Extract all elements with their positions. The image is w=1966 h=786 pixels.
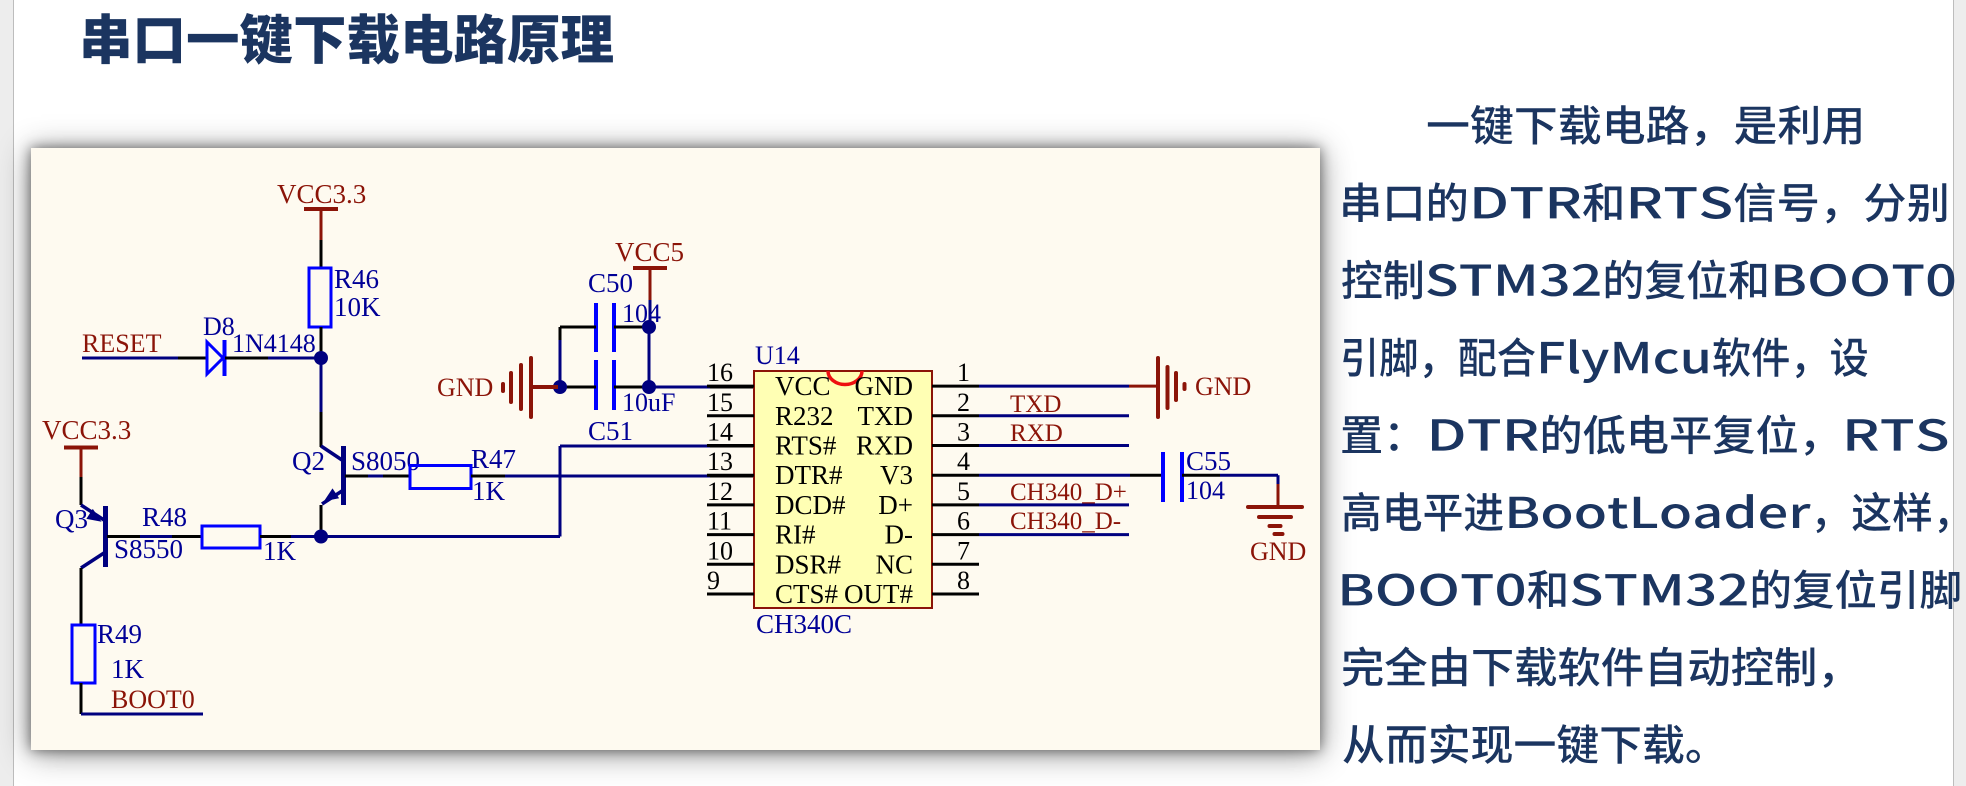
pin number 5	[957, 477, 970, 506]
transistor Q3 (S8550 PNP)	[81, 505, 106, 625]
pin name RI#	[775, 520, 816, 550]
node C51 right junction	[642, 380, 656, 394]
pin name CTS#	[775, 579, 839, 609]
ground GND (C55)	[1248, 507, 1306, 566]
pin 3 stub	[932, 444, 979, 447]
wire R46 to RESET node	[320, 327, 323, 358]
net label RESET	[82, 329, 162, 358]
pin 10 stub	[707, 563, 754, 566]
pin 7 stub	[932, 563, 979, 566]
net label TXD	[1010, 391, 1061, 418]
resistor R48	[202, 526, 260, 548]
pin number 7	[957, 536, 970, 565]
wire pin 5 CH340_D+	[979, 503, 1129, 506]
left gutter	[0, 0, 14, 786]
ground GND (C50/C51)	[437, 358, 558, 417]
IC U14 chip body (CH340C)	[754, 371, 932, 608]
label C50	[588, 268, 633, 298]
power VCC3.3 (Q3 emitter)	[42, 415, 131, 505]
pin 14 stub	[707, 444, 754, 447]
pin name RXD	[856, 431, 913, 461]
resistor R46	[309, 268, 331, 327]
net label CH340_D-	[1010, 508, 1121, 535]
wire C50 left	[560, 326, 596, 329]
net label CH340_D+	[1010, 479, 1127, 506]
wire R48 to node B	[260, 535, 321, 538]
wire VCC5 node down	[648, 327, 651, 387]
pin number 4	[957, 447, 970, 476]
label CH340C	[756, 609, 852, 639]
pin name DTR#	[775, 460, 843, 490]
wire Q2 base to R47	[345, 475, 410, 478]
label 1K (R47 value)	[472, 476, 506, 506]
pin 12 stub	[707, 503, 754, 506]
pin 13 stub	[707, 474, 754, 477]
label R49	[97, 619, 142, 649]
wire RTS riser vertical	[559, 446, 562, 537]
label Q3	[55, 504, 88, 534]
pin number 3	[957, 418, 970, 447]
label C51	[588, 416, 633, 446]
pin name DSR#	[775, 549, 842, 579]
wire node A to Q2 collector	[320, 358, 323, 442]
wire R47 to pin 13 (DTR#)	[471, 475, 754, 478]
wire pin 6 CH340_D-	[979, 533, 1129, 536]
wire C50/C51 left riser	[559, 327, 562, 387]
power VCC5	[615, 237, 684, 327]
pin number 10	[707, 536, 733, 565]
node A junction (RESET/R46/Q2 collector)	[314, 351, 328, 365]
pin 8 stub	[932, 593, 979, 596]
pin number 11	[707, 507, 732, 536]
pin 2 stub	[932, 414, 979, 417]
wire R49 to BOOT0	[81, 683, 203, 714]
pin number 2	[957, 388, 970, 417]
right gutter	[1953, 0, 1966, 786]
resistor R49	[72, 625, 95, 683]
pin number 16	[707, 358, 733, 387]
node C51 left junction	[553, 380, 567, 394]
label S8550 (Q3 value)	[114, 534, 183, 564]
label C55	[1186, 446, 1231, 476]
wire C55 to GND corner	[1182, 475, 1278, 507]
wire D8 to node A	[225, 357, 321, 360]
wire node B to RTS riser	[321, 535, 560, 538]
capacitor C50	[596, 303, 614, 352]
wire C50 right	[614, 326, 649, 329]
pin name V3	[880, 460, 913, 490]
label 1K (R49 value)	[111, 654, 145, 684]
capacitor C55	[1163, 452, 1182, 502]
diode D8	[207, 340, 225, 376]
label R48	[142, 502, 187, 532]
transistor Q2 (S8050 NPN)	[321, 441, 344, 537]
pin number 8	[957, 566, 970, 595]
label 10uF (C51 value)	[622, 388, 675, 417]
pin number 14	[707, 418, 733, 447]
capacitor C51	[596, 360, 614, 410]
pin 16 stub	[707, 385, 754, 388]
label D8	[203, 312, 235, 341]
net label BOOT0	[111, 685, 195, 714]
node C50/VCC5 junction	[642, 320, 656, 334]
pin name R232	[775, 401, 834, 431]
wire C51 right	[614, 386, 649, 389]
wire Q3 base to R48	[107, 535, 202, 538]
pin number 9	[707, 566, 720, 595]
pin number 15	[707, 388, 733, 417]
wire C51 left	[560, 386, 596, 389]
pin 15 stub	[707, 414, 754, 417]
label 1K (R48 value)	[263, 536, 297, 566]
label S8050 (Q2 value)	[351, 446, 420, 476]
node B junction	[314, 530, 328, 544]
wire VCC node to pin 16	[649, 386, 754, 389]
pin name D-	[885, 520, 914, 550]
pin number 13	[707, 447, 733, 476]
wire riser to pin 14 (RTS#)	[560, 445, 754, 448]
wire pin 1 to GND	[979, 385, 1158, 388]
pin name TXD	[858, 401, 914, 431]
pin name D+	[878, 490, 913, 520]
label Q2	[292, 446, 325, 476]
pin name GND	[855, 371, 914, 401]
resistor R47	[410, 466, 471, 489]
pin name DCD#	[775, 490, 846, 520]
power VCC3.3 (R46 pull-up)	[277, 179, 366, 268]
wire pin 4 to C55	[979, 474, 1163, 477]
pin name OUT#	[844, 579, 913, 609]
label R46	[334, 264, 379, 294]
label 10K (R46 value)	[334, 292, 381, 322]
pin name VCC	[775, 371, 831, 401]
label 104 (C50 value)	[622, 299, 661, 328]
ground GND (pin 1)	[1158, 358, 1251, 417]
pin number 12	[707, 477, 733, 506]
pin 9 stub	[707, 593, 754, 596]
pin 11 stub	[707, 533, 754, 536]
schematic panel background	[31, 148, 1320, 750]
pin number 1	[957, 358, 970, 387]
label 1N4148 (D8 value)	[232, 329, 316, 358]
pin name RTS#	[775, 431, 837, 461]
pin 6 stub	[932, 533, 979, 536]
pin name NC	[875, 549, 913, 579]
wire pin 3 RXD	[979, 444, 1129, 447]
pin number 6	[957, 507, 970, 536]
label 104 (C55 value)	[1186, 476, 1225, 505]
pin 1 stub	[932, 385, 979, 388]
wire Q2 emitter to node B	[320, 505, 323, 530]
label R47	[471, 444, 516, 474]
wire pin 2 TXD	[979, 414, 1129, 417]
label U14	[755, 341, 800, 370]
net label RXD	[1010, 420, 1063, 447]
wire RESET	[82, 357, 207, 360]
pin 5 stub	[932, 503, 979, 506]
pin 4 stub	[932, 474, 979, 477]
